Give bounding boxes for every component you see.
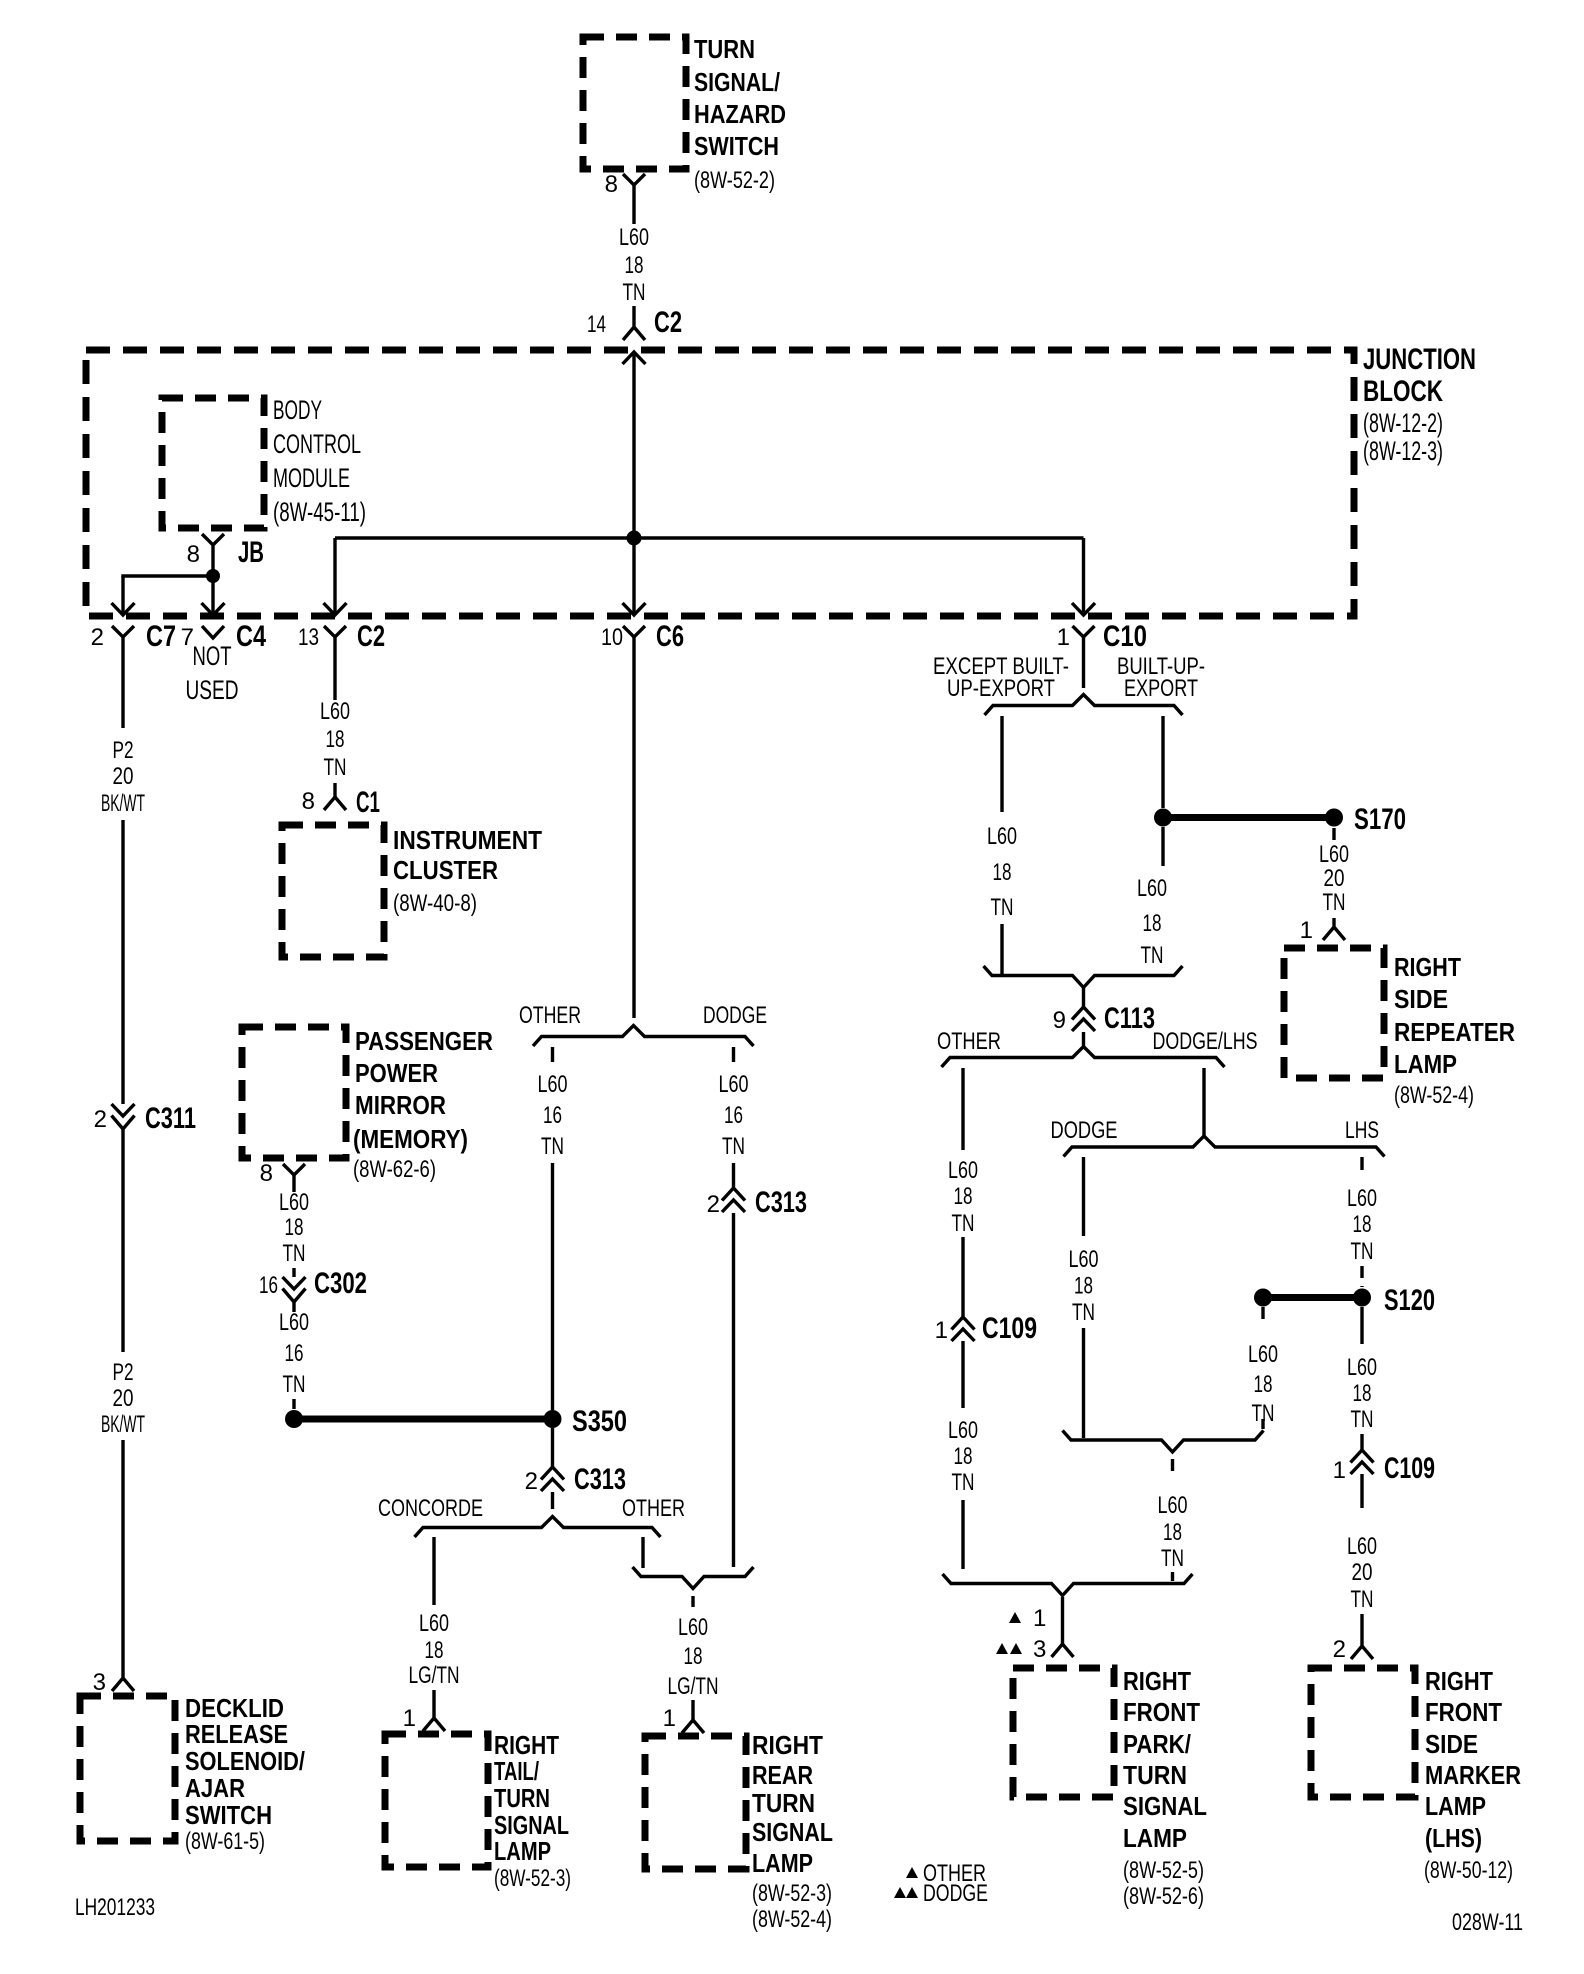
wire from C2 to C1: [333, 637, 336, 700]
splice link wire to S170: [1163, 814, 1334, 821]
svg-text:POWER: POWER: [355, 1058, 438, 1088]
wire below built-up node: [1161, 827, 1164, 866]
svg-text:(8W-52-4): (8W-52-4): [752, 1906, 832, 1933]
svg-text:SWITCH: SWITCH: [694, 131, 779, 161]
svg-text:L60: L60: [538, 1071, 568, 1098]
svg-text:P2: P2: [113, 737, 134, 764]
svg-text:BK/WT: BK/WT: [101, 1411, 145, 1438]
svg-text:PARK/: PARK/: [1123, 1729, 1191, 1759]
wire from switch to C2: [632, 306, 635, 327]
connector C6 pin 10: [623, 626, 645, 637]
svg-text:L60: L60: [678, 1614, 708, 1641]
wire from C10 to split: [1082, 637, 1085, 688]
svg-text:HAZARD: HAZARD: [694, 99, 786, 129]
svg-text:(8W-12-2): (8W-12-2): [1363, 408, 1443, 438]
svg-text:LAMP: LAMP: [1123, 1823, 1187, 1853]
svg-text:PASSENGER: PASSENGER: [355, 1026, 493, 1056]
connector C10 pin 1: [1073, 626, 1095, 637]
svg-text:TURN: TURN: [494, 1783, 550, 1813]
svg-text:20: 20: [113, 763, 134, 790]
body control module box: [162, 398, 264, 528]
inline connector C302 pin 16: [283, 1277, 306, 1289]
svg-text:(8W-12-3): (8W-12-3): [1363, 436, 1443, 466]
svg-text:18: 18: [425, 1637, 444, 1664]
wire OTHER branch down to S350: [551, 1163, 554, 1410]
svg-text:2: 2: [94, 1106, 107, 1133]
svg-text:TN: TN: [722, 1133, 745, 1160]
svg-text:MARKER: MARKER: [1425, 1760, 1521, 1790]
right side repeater lamp box: [1284, 948, 1384, 1078]
svg-text:16: 16: [259, 1272, 278, 1299]
svg-text:BK/WT: BK/WT: [101, 790, 145, 817]
svg-text:L60: L60: [1158, 1492, 1188, 1519]
svg-text:LAMP: LAMP: [494, 1836, 551, 1866]
splice node left of S350: [285, 1410, 303, 1428]
svg-text:(8W-50-12): (8W-50-12): [1424, 1857, 1513, 1884]
svg-text:S120: S120: [1384, 1284, 1435, 1317]
connector fork at switch pin 8: [623, 174, 645, 185]
splice node to S170: [1154, 809, 1172, 827]
svg-text:MODULE: MODULE: [273, 463, 350, 493]
svg-text:C10: C10: [1103, 620, 1147, 653]
svg-text:028W-11: 028W-11: [1452, 1909, 1523, 1936]
svg-text:18: 18: [326, 726, 345, 753]
svg-text:1: 1: [663, 1705, 676, 1732]
wire C313 to split: [551, 1492, 554, 1509]
svg-text:L60: L60: [1347, 1185, 1377, 1212]
svg-text:OTHER: OTHER: [937, 1028, 1001, 1055]
svg-text:C109: C109: [982, 1312, 1037, 1345]
wire drop to C4 with arrow: [211, 576, 214, 613]
wire S350 down to C313: [551, 1428, 554, 1467]
inline connector C109 pin 1: [952, 1317, 975, 1330]
wire below C302: [292, 1302, 295, 1312]
svg-text:C1: C1: [356, 786, 380, 819]
svg-text:LG/TN: LG/TN: [668, 1673, 719, 1700]
wire down to C311: [121, 820, 124, 1104]
wire below C109: [961, 1341, 964, 1408]
svg-text:8: 8: [260, 1160, 273, 1187]
inline connector C311 pin 2: [112, 1104, 135, 1116]
wire drop to C2 exit with arrow: [333, 538, 336, 613]
wire to C1 connector: [333, 783, 336, 797]
svg-text:L60: L60: [1347, 1354, 1377, 1381]
svg-text:1: 1: [1333, 1457, 1346, 1484]
svg-text:OTHER: OTHER: [622, 1495, 685, 1522]
svg-text:L60: L60: [1069, 1246, 1099, 1273]
merge brace into park/turn lamp: [943, 1574, 1193, 1596]
svg-text:TN: TN: [1351, 1586, 1374, 1613]
svg-text:(8W-45-11): (8W-45-11): [273, 497, 366, 527]
svg-text:L60: L60: [1319, 841, 1349, 868]
wire from C6 down to split: [632, 637, 635, 1018]
connector C7 pin 2: [112, 626, 134, 637]
svg-text:S170: S170: [1354, 803, 1406, 836]
svg-text:(8W-52-4): (8W-52-4): [1394, 1082, 1474, 1109]
split brace DODGE / LHS: [1064, 1136, 1385, 1157]
split brace OTHER / DODGE-LHS: [942, 1047, 1225, 1068]
svg-text:2: 2: [707, 1191, 720, 1218]
svg-text:L60: L60: [419, 1610, 449, 1637]
svg-text:18: 18: [1254, 1371, 1273, 1398]
split brace OTHER / DODGE: [533, 1026, 754, 1047]
svg-text:TN: TN: [952, 1469, 975, 1496]
wire to C109: [1360, 1434, 1363, 1450]
svg-text:(8W-52-6): (8W-52-6): [1123, 1883, 1204, 1910]
wire from node to C7 drop: [121, 574, 214, 577]
svg-text:9: 9: [1053, 1007, 1066, 1034]
inline connector C313 pin 2 (dodge): [722, 1188, 745, 1201]
svg-text:TURN: TURN: [694, 34, 755, 64]
wire to C109: [961, 1237, 964, 1317]
svg-text:C2: C2: [357, 620, 385, 653]
splice S120: [1353, 1289, 1371, 1307]
svg-text:C313: C313: [755, 1186, 807, 1219]
svg-text:REAR: REAR: [752, 1760, 813, 1790]
wire DODGE branch to C313: [732, 1163, 735, 1188]
connector C2 pin 14 into junction block: [623, 327, 645, 340]
dashed stub below S170: [1332, 828, 1335, 840]
wire drop to C7 with arrow: [121, 576, 124, 613]
svg-text:TN: TN: [1323, 889, 1346, 916]
svg-text:L60: L60: [948, 1417, 978, 1444]
svg-text:NOT: NOT: [193, 641, 232, 671]
svg-text:(8W-62-6): (8W-62-6): [353, 1156, 436, 1183]
svg-text:P2: P2: [113, 1359, 134, 1386]
svg-text:18: 18: [1143, 910, 1162, 937]
connector C1 pin 8 into instrument cluster: [324, 797, 346, 810]
svg-text:TN: TN: [991, 894, 1014, 921]
svg-text:14: 14: [587, 311, 606, 338]
svg-text:LAMP: LAMP: [1425, 1791, 1486, 1821]
svg-text:TN: TN: [623, 279, 646, 306]
inline connector C109 pin 1 (LHS): [1351, 1450, 1374, 1463]
dashed stub above S120: [1360, 1266, 1363, 1287]
splice S170: [1325, 809, 1343, 827]
svg-text:TN: TN: [283, 1240, 306, 1267]
svg-text:18: 18: [1163, 1519, 1182, 1546]
svg-text:L60: L60: [320, 698, 350, 725]
merge brace DODGE + S120 stub: [1063, 1431, 1264, 1453]
svg-text:C311: C311: [145, 1102, 196, 1135]
svg-text:1: 1: [403, 1705, 416, 1732]
wire DODGE/LHS down: [1202, 1068, 1205, 1136]
svg-text:8: 8: [187, 541, 200, 568]
split brace EXCEPT BUILT-UP-EXPORT / BUILT-UP-EXPORT: [985, 695, 1183, 716]
svg-text:3: 3: [1033, 1636, 1046, 1663]
inline connector C113 pin 9: [1082, 988, 1085, 1007]
svg-text:TN: TN: [952, 1210, 975, 1237]
legend OTHER: [906, 1867, 918, 1878]
svg-text:(8W-52-3): (8W-52-3): [494, 1865, 571, 1892]
wire DODGE branch down: [1082, 1157, 1085, 1236]
turn signal / hazard switch box: [583, 37, 686, 169]
connector fork at BCM pin 8: [202, 534, 224, 545]
svg-text:18: 18: [1074, 1273, 1093, 1300]
svg-text:L60: L60: [1347, 1533, 1377, 1560]
svg-text:LAMP: LAMP: [752, 1848, 813, 1878]
svg-text:SIDE: SIDE: [1394, 984, 1448, 1014]
right tail/turn signal lamp box: [385, 1734, 488, 1867]
svg-text:REPEATER: REPEATER: [1394, 1017, 1515, 1047]
svg-text:16: 16: [724, 1102, 743, 1129]
dashed stub to front merge: [1171, 1572, 1174, 1581]
svg-text:MIRROR: MIRROR: [355, 1090, 446, 1120]
svg-text:C2: C2: [654, 306, 682, 339]
svg-text:RIGHT: RIGHT: [1425, 1666, 1493, 1696]
svg-text:L60: L60: [279, 1189, 309, 1216]
splice S350: [544, 1410, 562, 1428]
wire to tail lamp: [432, 1690, 435, 1718]
svg-text:20: 20: [1324, 865, 1345, 892]
svg-text:18: 18: [993, 859, 1012, 886]
svg-text:SIDE: SIDE: [1425, 1729, 1478, 1759]
svg-text:20: 20: [1352, 1559, 1373, 1586]
right front side marker lamp box: [1311, 1668, 1415, 1797]
wire drop to C10 exit with arrow: [1082, 538, 1085, 613]
svg-text:10: 10: [601, 624, 623, 651]
wire C2 entry down to bus: [632, 352, 635, 538]
wire to marker lamp: [1360, 1614, 1363, 1646]
svg-text:TURN: TURN: [1123, 1760, 1187, 1790]
svg-text:L60: L60: [948, 1157, 978, 1184]
inline connector C313 pin 2: [541, 1467, 564, 1480]
split brace CONCORDE / OTHER: [415, 1517, 661, 1538]
dashed stub to merge tip: [1261, 1419, 1264, 1429]
svg-text:TN: TN: [1072, 1299, 1095, 1326]
svg-text:L60: L60: [1137, 875, 1167, 902]
svg-text:C109: C109: [1384, 1452, 1435, 1485]
connector into park lamp: [1061, 1597, 1064, 1644]
svg-text:FRONT: FRONT: [1425, 1697, 1502, 1727]
svg-text:LHS: LHS: [1345, 1117, 1379, 1144]
svg-text:1: 1: [1057, 624, 1070, 651]
splice link wire to S350: [294, 1416, 553, 1423]
bus wire across junction block: [335, 536, 1084, 539]
wire except-built-up branch: [1000, 716, 1003, 812]
connector C4 pin 7 (not used): [202, 626, 224, 638]
svg-text:SIGNAL: SIGNAL: [1123, 1791, 1207, 1821]
svg-text:AJAR: AJAR: [185, 1773, 245, 1803]
svg-text:C313: C313: [574, 1463, 626, 1496]
svg-text:18: 18: [954, 1183, 973, 1210]
svg-text:UP-EXPORT: UP-EXPORT: [947, 675, 1055, 702]
svg-text:JUNCTION: JUNCTION: [1363, 343, 1476, 376]
svg-text:(8W-40-8): (8W-40-8): [393, 890, 477, 917]
junction node under BCM: [206, 569, 220, 583]
svg-text:1: 1: [935, 1317, 948, 1344]
svg-text:L60: L60: [987, 823, 1017, 850]
svg-text:FRONT: FRONT: [1123, 1697, 1200, 1727]
wire drop to C6 exit with arrow: [632, 538, 635, 613]
svg-text:CONCORDE: CONCORDE: [378, 1495, 483, 1522]
svg-text:3: 3: [93, 1669, 106, 1696]
wire OTHER branch upper: [551, 1047, 554, 1062]
wire to rear lamp: [691, 1700, 694, 1720]
legend DODGE: [894, 1887, 906, 1898]
svg-text:C302: C302: [314, 1267, 367, 1300]
wire below merge: [691, 1596, 694, 1607]
merge brace OTHER + DODGE: [633, 1567, 754, 1589]
decklid release solenoid/ajar switch box: [80, 1696, 175, 1841]
svg-text:LG/TN: LG/TN: [409, 1662, 460, 1689]
svg-text:2: 2: [1333, 1636, 1346, 1663]
svg-text:L60: L60: [719, 1071, 749, 1098]
wire OTHER short branch: [641, 1537, 644, 1568]
wire DODGE branch upper: [732, 1047, 735, 1062]
svg-text:SIGNAL/: SIGNAL/: [694, 67, 780, 97]
svg-text:TN: TN: [1351, 1238, 1374, 1265]
svg-text:S350: S350: [572, 1405, 627, 1438]
svg-text:OTHER: OTHER: [519, 1002, 581, 1029]
svg-text:TN: TN: [283, 1371, 306, 1398]
wire from C7 down: [121, 637, 124, 728]
wire DODGE branch down to merge: [732, 1213, 735, 1567]
svg-text:(8W-61-5): (8W-61-5): [185, 1828, 265, 1855]
svg-text:20: 20: [113, 1385, 134, 1412]
dashed stub below left node: [1261, 1307, 1264, 1319]
svg-text:18: 18: [1353, 1380, 1372, 1407]
svg-text:TAIL/: TAIL/: [494, 1756, 539, 1786]
svg-text:TN: TN: [1161, 1545, 1184, 1572]
wire C113 to split: [1082, 1032, 1085, 1046]
splice node left of S120: [1254, 1289, 1272, 1307]
svg-text:16: 16: [285, 1340, 304, 1367]
wire to C302: [292, 1268, 295, 1277]
svg-text:RIGHT: RIGHT: [1123, 1666, 1191, 1696]
svg-text:BODY: BODY: [273, 395, 322, 425]
passenger power mirror box: [242, 1027, 346, 1158]
right rear turn signal lamp box: [645, 1736, 746, 1869]
right front park/turn signal lamp box: [1013, 1668, 1114, 1797]
svg-text:18: 18: [954, 1443, 973, 1470]
svg-text:1: 1: [1300, 917, 1313, 944]
svg-text:LH201233: LH201233: [75, 1894, 155, 1921]
svg-text:L60: L60: [619, 224, 649, 251]
svg-text:INSTRUMENT: INSTRUMENT: [393, 825, 542, 855]
svg-text:8: 8: [302, 788, 315, 815]
merge brace into C113: [984, 966, 1183, 988]
wire below C311: [121, 1129, 124, 1352]
svg-text:SOLENOID/: SOLENOID/: [185, 1746, 305, 1776]
pin triangles for park lamp: [1009, 1612, 1021, 1623]
svg-text:LAMP: LAMP: [1394, 1049, 1457, 1079]
svg-text:(8W-52-5): (8W-52-5): [1123, 1857, 1204, 1884]
junction block dashed outline: [86, 350, 1354, 616]
svg-text:(MEMORY): (MEMORY): [353, 1124, 468, 1154]
svg-text:RELEASE: RELEASE: [185, 1719, 288, 1749]
svg-text:13: 13: [298, 624, 319, 651]
svg-text:RIGHT: RIGHT: [1394, 952, 1461, 982]
svg-text:TN: TN: [1351, 1406, 1374, 1433]
svg-text:DODGE/LHS: DODGE/LHS: [1153, 1028, 1258, 1055]
svg-text:CLUSTER: CLUSTER: [393, 855, 498, 885]
svg-text:(LHS): (LHS): [1425, 1823, 1482, 1853]
svg-text:JB: JB: [238, 536, 264, 569]
svg-text:16: 16: [543, 1102, 562, 1129]
svg-text:C7: C7: [146, 620, 176, 653]
svg-text:2: 2: [525, 1468, 538, 1495]
svg-text:USED: USED: [186, 675, 239, 705]
svg-text:C113: C113: [1104, 1002, 1155, 1035]
svg-text:DODGE: DODGE: [703, 1002, 767, 1029]
svg-text:18: 18: [684, 1643, 703, 1670]
svg-text:SIGNAL: SIGNAL: [752, 1817, 833, 1847]
svg-text:RIGHT: RIGHT: [752, 1730, 823, 1760]
splice link wire to S120: [1263, 1294, 1362, 1301]
svg-text:18: 18: [285, 1214, 304, 1241]
svg-text:TN: TN: [541, 1133, 564, 1160]
svg-text:TURN: TURN: [752, 1788, 815, 1818]
svg-text:18: 18: [625, 252, 644, 279]
dashed wire below merge: [1171, 1459, 1174, 1471]
svg-text:1: 1: [1033, 1605, 1046, 1632]
svg-text:TN: TN: [324, 754, 347, 781]
svg-text:TN: TN: [1141, 942, 1164, 969]
wire CONCORDE branch down: [432, 1537, 435, 1605]
connector C2 pin 13: [324, 626, 346, 637]
svg-text:8: 8: [605, 171, 618, 198]
svg-text:(8W-52-3): (8W-52-3): [752, 1880, 832, 1907]
wire down to decklid switch: [121, 1440, 124, 1678]
svg-text:BLOCK: BLOCK: [1363, 375, 1443, 408]
svg-text:C6: C6: [656, 620, 684, 653]
wire built-up-export branch: [1161, 716, 1164, 808]
wire below C109: [1360, 1474, 1363, 1508]
svg-text:EXPORT: EXPORT: [1124, 675, 1198, 702]
svg-text:18: 18: [1353, 1211, 1372, 1238]
dashed wire stub to splice: [292, 1399, 295, 1409]
svg-text:(8W-52-2): (8W-52-2): [694, 167, 775, 194]
wire DODGE to merge brace: [1082, 1328, 1085, 1438]
dashed wire LHS upper: [1360, 1157, 1363, 1170]
svg-text:L60: L60: [279, 1309, 309, 1336]
junction node on bus: [627, 531, 642, 546]
wire down to front merge: [961, 1500, 964, 1569]
svg-text:DODGE: DODGE: [1051, 1117, 1118, 1144]
wire LHS below S120: [1360, 1307, 1363, 1344]
svg-text:C4: C4: [236, 620, 266, 653]
instrument cluster box: [282, 825, 384, 957]
wire down to merge: [1000, 924, 1003, 976]
svg-text:L60: L60: [1248, 1341, 1278, 1368]
svg-text:CONTROL: CONTROL: [273, 429, 361, 459]
svg-text:SWITCH: SWITCH: [185, 1800, 272, 1830]
svg-text:2: 2: [91, 624, 104, 651]
wire OTHER branch down: [961, 1068, 964, 1150]
svg-text:DODGE: DODGE: [923, 1880, 988, 1907]
